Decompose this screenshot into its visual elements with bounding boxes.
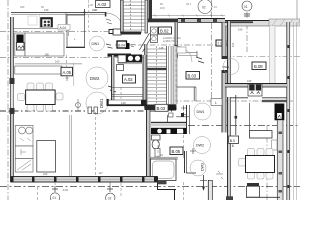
svg-text:A.02: A.02 (124, 77, 133, 82)
bathroom A.02 right wall (143, 55, 146, 105)
kitchen island sink unit (15, 33, 25, 56)
dining chairs top (18, 83, 64, 111)
black shaft box (275, 104, 285, 121)
grid line vertical right top (246, 12, 248, 52)
label B.03 (186, 72, 200, 80)
dining chairs right (238, 149, 273, 180)
grid bubble 01 bottom (50, 193, 59, 202)
stair flight2 right stringer (166, 46, 168, 104)
svg-text:-0.02: -0.02 (62, 188, 68, 192)
landing edge bar in stairs (121, 32, 141, 35)
svg-text:180: 180 (45, 53, 50, 57)
party wall double line vertical (270, 26, 276, 86)
grid line vertical left (7, 0, 9, 200)
landing edge lines (179, 52, 198, 54)
band below A.02 (108, 99, 147, 101)
washbasin counter box A.02 (118, 55, 126, 63)
lines in A.02 (112, 87, 143, 89)
svg-text:DW1: DW1 (197, 110, 205, 114)
kitchen counter line (14, 28, 67, 30)
sideboard (15, 66, 62, 74)
door jamb lower (222, 70, 228, 73)
corridor south edge (177, 86, 197, 88)
label A.02 (123, 75, 136, 83)
stair break line (140, 33, 153, 52)
svg-text:DW2: DW2 (196, 144, 204, 148)
grid line horizontal top right y22 (269, 22, 300, 24)
stair mid landing bar (147, 68, 167, 70)
bidet (155, 149, 160, 158)
grid line horizontal y31 (0, 31, 108, 33)
left outer wall (11, 17, 14, 182)
svg-text:117: 117 (99, 171, 104, 175)
svg-text:DW1: DW1 (223, 65, 230, 69)
grid bubble 02 bottom (106, 193, 115, 202)
right edge short line top (296, 0, 298, 26)
corridor fixture box (177, 47, 186, 53)
level cross 02 (107, 186, 113, 192)
wall spur x194.5 (193, 87, 195, 101)
room corner lines (167, 115, 169, 122)
washing machine (151, 27, 158, 35)
svg-text:190: 190 (247, 79, 252, 83)
door hinge living (76, 103, 81, 108)
door DW1 circle top (90, 36, 105, 51)
sofa (37, 141, 56, 173)
bathroom A.02 left wall (112, 55, 115, 100)
level cross 01 (52, 186, 58, 192)
svg-text:B.03: B.03 (157, 106, 166, 111)
svg-text:01: 01 (53, 196, 57, 200)
section line horizontal y111 (0, 110, 172, 112)
stove (41, 18, 53, 28)
stair flight2 center line (156, 46, 158, 103)
svg-text:02 1: 02 1 (186, 2, 192, 6)
left wall window block 2 (10, 108, 15, 114)
right room left wall (228, 21, 231, 86)
mid-right wall vertical upper (222, 23, 226, 59)
door DW2 circle right (194, 137, 211, 154)
stair flight1 center dashed (130, 0, 132, 32)
bottom wall corner step (157, 177, 159, 191)
vanity dark A.02 (126, 55, 142, 63)
section arrow bottom mid (203, 175, 205, 189)
shaft band right of stairs (171, 46, 177, 104)
section line horizontal y125 (188, 125, 300, 127)
door DW1 circle right (194, 103, 211, 120)
wall pair bottom mid (208, 180, 212, 200)
dark line above kitchenette (151, 122, 187, 123)
grid bubble 01 top right (242, 1, 252, 11)
cabinet low (15, 159, 33, 173)
dim ticks right of arrow (216, 171, 223, 179)
grid line horizontal y101 (172, 100, 293, 102)
stairwell bottom dark band (145, 105, 177, 111)
bath left wall (147, 110, 151, 180)
small box A.02 (117, 65, 124, 71)
tall cabinet column (67, 15, 85, 47)
tick marks near door top (106, 19, 112, 24)
svg-text:115: 115 (231, 42, 235, 47)
door DW3 circle (190, 160, 206, 176)
dryer (151, 35, 158, 43)
svg-text:02: 02 (108, 197, 112, 201)
dashed vertical x88.5 (88, 0, 90, 31)
door jambs in y111 line (88, 107, 92, 114)
svg-text:1 38: 1 38 (126, 3, 132, 7)
top-left wall (11, 12, 106, 14)
svg-text:190: 190 (44, 8, 49, 12)
kitchen island counter (25, 33, 64, 56)
svg-text:B.04: B.04 (118, 44, 125, 48)
svg-text:190: 190 (238, 28, 243, 32)
door jamb tick x105.5 (105, 12, 107, 17)
small label box left of wall (272, 140, 278, 150)
sideboard right unit (250, 131, 273, 138)
svg-text:160: 160 (55, 59, 60, 63)
svg-text:A.03: A.03 (98, 2, 107, 7)
svg-text:a=16% fl 8m: a=16% fl 8m (163, 40, 176, 43)
dimension text top strip (20, 2, 217, 10)
label A.05 (61, 67, 73, 76)
wall line y98 right (231, 97, 249, 99)
svg-text:180: 180 (20, 5, 25, 9)
dashed verticals (66, 55, 68, 70)
grid bubble 02 top (198, 0, 212, 14)
label right lower (229, 136, 239, 144)
right outer wall (287, 22, 290, 200)
label B.05 (170, 147, 183, 155)
svg-text:A.04: A.04 (60, 26, 67, 30)
tick below bubble 01 (244, 14, 250, 16)
top right hatched band (269, 19, 300, 26)
bath right wall (184, 151, 186, 173)
kitchen counter end (65, 13, 67, 29)
lower cabinet line (15, 63, 82, 65)
svg-text:B.02: B.02 (160, 29, 169, 34)
wall right mid horizontal (225, 84, 287, 88)
grid line horizontal y57 (0, 57, 146, 59)
svg-text:4 20: 4 20 (88, 3, 94, 7)
label box right of DW1 (117, 41, 127, 48)
label B.03 lower (168, 104, 176, 110)
svg-text:136: 136 (93, 8, 98, 12)
dark label box right (216, 40, 226, 46)
black kitchenette bar (151, 128, 187, 134)
left wall window block 1 (10, 78, 15, 84)
svg-text:01: 01 (244, 5, 248, 9)
partition line right of living (69, 115, 71, 177)
svg-text:DW3: DW3 (201, 163, 205, 171)
svg-text:DW1: DW1 (99, 98, 104, 108)
arrow marks near doors (108, 86, 116, 92)
svg-text:A.05: A.05 (63, 70, 72, 75)
left wall window glass (11, 84, 13, 112)
svg-text:DW2: DW2 (90, 76, 100, 81)
door arc partial left (223, 59, 239, 75)
gray strip (151, 124, 187, 126)
bottom outer wall (11, 177, 158, 183)
door jamb top (113, 29, 121, 35)
partition lower right unit (235, 95, 237, 135)
cross mark (190, 148, 196, 154)
label A.04 (58, 25, 70, 31)
cross marks (181, 106, 186, 118)
door DW2 circle left (86, 67, 108, 89)
grid line vertical x267 lower (266, 125, 268, 200)
mid-right wall vertical lower (222, 73, 226, 133)
svg-text:140: 140 (121, 101, 126, 105)
wall top of stairwell black (149, 0, 153, 19)
stair flight1 right rail (145, 0, 148, 33)
island sink black (16, 35, 23, 43)
svg-text:DW1: DW1 (92, 42, 100, 46)
bottom wall mullions (11, 177, 158, 183)
extension line x73.8 (73, 63, 75, 86)
corridor door arcs (176, 46, 192, 62)
label A.03 (96, 1, 111, 8)
armchair unit (15, 126, 33, 147)
dark bar bottom near right unit (226, 196, 233, 200)
counter line (248, 103, 250, 131)
washer pair right (248, 84, 262, 96)
lower party wall right (278, 120, 284, 200)
door sill line (186, 172, 196, 174)
svg-text:L: L (215, 101, 217, 105)
dimension chain above wall (152, 14, 225, 16)
svg-text:02: 02 (202, 5, 206, 9)
dining table (26, 90, 55, 105)
right lower unit left wall (228, 97, 231, 200)
svg-text:B.05: B.05 (172, 149, 181, 154)
stair post black (125, 43, 130, 49)
door DW1 circle left (86, 92, 108, 114)
stair flight2 treads (147, 49, 167, 102)
dining table right (246, 156, 275, 173)
svg-text:B.08: B.08 (254, 64, 263, 69)
arrow marks right of DW1 (106, 44, 113, 48)
bottom right furniture (247, 183, 259, 186)
svg-text:1(9): 1(9) (160, 6, 165, 10)
grid line vertical x211 (211, 0, 213, 101)
tub top edge lines (150, 156, 178, 158)
toilet (152, 135, 161, 140)
door jamb upper (222, 56, 228, 59)
label B.08 (252, 62, 266, 70)
B.02 right wall (175, 23, 178, 46)
stair flight1 treads (123, 2, 145, 30)
svg-text:B.03: B.03 (188, 74, 197, 79)
island dishwasher (16, 43, 24, 51)
bath right wall upper (186, 105, 188, 134)
wall below stairs segment (108, 54, 132, 57)
label B.02 (159, 27, 172, 34)
door DW1 arc top (106, 13, 123, 30)
small dark mark above (109, 30, 113, 34)
section line horizontal bottom y186 (0, 186, 300, 188)
threshold (158, 181, 167, 185)
svg-text:160: 160 (43, 172, 48, 176)
stair flight1 left rail (121, 0, 124, 33)
svg-text:148: 148 (159, 46, 164, 50)
sink top-left (28, 16, 37, 25)
stair flight2 left wall (145, 44, 147, 108)
cabinet mid (15, 146, 33, 159)
svg-text:B.0: B.0 (230, 139, 235, 143)
fine print lines (163, 37, 181, 43)
top-mid wall (148, 19, 178, 23)
top right window band (225, 21, 269, 27)
grid line horizontal y45 (115, 44, 230, 46)
label box L (211, 99, 222, 106)
bathtub (151, 159, 177, 181)
